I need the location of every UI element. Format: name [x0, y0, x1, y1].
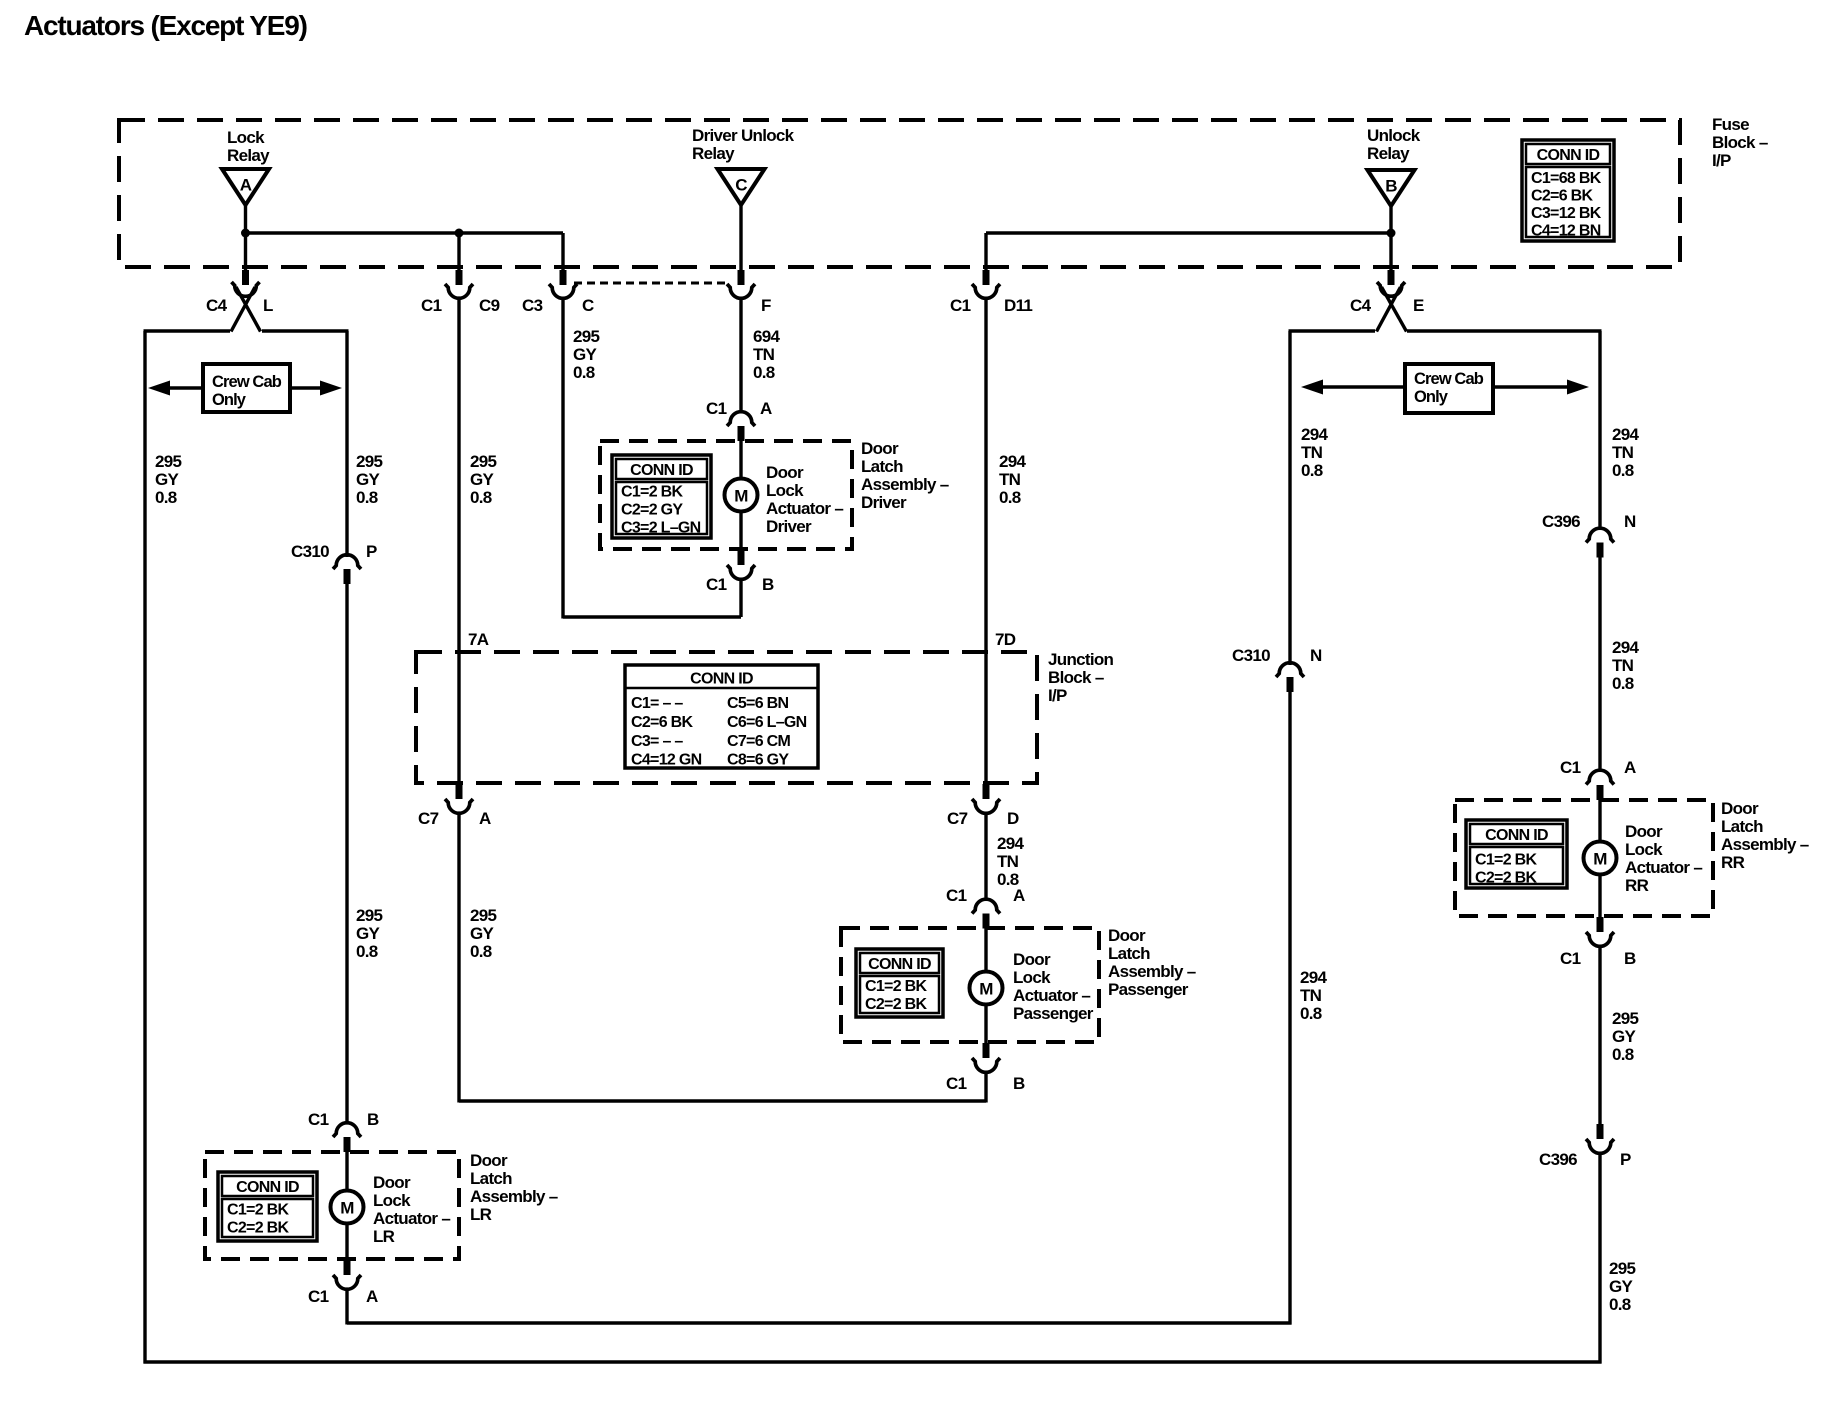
- CONN ID table (driver): [612, 455, 711, 538]
- arrow line left-right: [290, 386, 330, 389]
- wire split E right diagonal: [1382, 287, 1407, 332]
- connector C1 A (LR) terminal: [333, 1275, 361, 1289]
- svg-text:CONN ID: CONN ID: [868, 956, 931, 973]
- connector C4-L pin stub: [242, 270, 249, 285]
- svg-text:294TN0.8: 294TN0.8: [997, 834, 1025, 889]
- relay C (Driver Unlock Relay): [718, 169, 765, 205]
- svg-text:C4: C4: [1350, 296, 1372, 315]
- svg-text:B: B: [1013, 1074, 1025, 1093]
- svg-text:C2=2 BK: C2=2 BK: [227, 1220, 289, 1237]
- connector C1 A (LR) stub: [344, 1260, 351, 1275]
- arrow line right-left: [1313, 385, 1405, 388]
- svg-text:M: M: [340, 1199, 354, 1218]
- svg-text:Actuators (Except YE9): Actuators (Except YE9): [24, 10, 307, 41]
- fuse block I/P dashed box: [119, 120, 1680, 267]
- connector C1 B (passenger) stub: [983, 1043, 990, 1058]
- svg-text:N: N: [1624, 512, 1636, 531]
- Crew Cab Only box (right): [1405, 364, 1493, 413]
- svg-text:N: N: [1310, 646, 1322, 665]
- wire RR motor bottom: [1598, 875, 1601, 917]
- wire 294 TN to RR latch: [1598, 557, 1601, 773]
- connector C310 P stub: [344, 569, 351, 584]
- connector C1 B (RR) stub: [1597, 917, 1604, 932]
- arrowhead right-right: [1567, 380, 1589, 395]
- svg-text:C5=6 BN: C5=6 BN: [727, 695, 788, 712]
- wire 294 TN C310 N down: [1288, 691, 1291, 1325]
- svg-text:C2=2 BK: C2=2 BK: [1475, 870, 1537, 887]
- svg-text:C1: C1: [308, 1287, 329, 1306]
- svg-text:295GY0.8: 295GY0.8: [1612, 1009, 1639, 1064]
- svg-text:A: A: [760, 399, 772, 418]
- svg-text:C: C: [735, 176, 747, 195]
- svg-text:C1: C1: [1560, 949, 1581, 968]
- svg-text:JunctionBlock –I/P: JunctionBlock –I/P: [1048, 650, 1114, 705]
- motor M door lock actuator RR: [1584, 842, 1617, 875]
- connector C396 N: [1586, 528, 1614, 542]
- svg-text:LockRelay: LockRelay: [227, 128, 270, 165]
- connector C310 N stub: [1287, 677, 1294, 692]
- svg-text:C1: C1: [946, 1074, 967, 1093]
- connector C1 A (RR) stub: [1597, 785, 1604, 800]
- wire passenger motor bottom: [984, 1004, 987, 1043]
- wire passenger motor top: [984, 928, 987, 972]
- wire 295 GY RR down: [1598, 945, 1601, 1125]
- connector C1-C9 pin stub: [456, 270, 463, 285]
- connector C396 N stub: [1597, 543, 1604, 558]
- connector C1 A (passenger) terminal: [972, 899, 1000, 913]
- wire relay A stem: [244, 205, 247, 272]
- svg-text:295GY0.8: 295GY0.8: [470, 906, 497, 961]
- svg-text:F: F: [761, 296, 771, 315]
- svg-text:B: B: [1624, 949, 1636, 968]
- connector C1 B (LR) stub: [344, 1137, 351, 1152]
- wire 295 GY C7A down: [457, 812, 460, 1103]
- svg-text:Crew CabOnly: Crew CabOnly: [212, 373, 282, 409]
- svg-text:DoorLockActuator –LR: DoorLockActuator –LR: [373, 1173, 450, 1246]
- connector C1-D11 terminal: [972, 284, 1000, 298]
- svg-text:CONN ID: CONN ID: [1485, 827, 1548, 844]
- svg-text:294TN0.8: 294TN0.8: [999, 452, 1027, 507]
- CONN ID table (fuse block): [1522, 140, 1614, 241]
- wire LR motor top: [345, 1152, 348, 1191]
- wire 295 GY C9 to junction block: [457, 297, 460, 784]
- svg-text:C310: C310: [1232, 646, 1270, 665]
- svg-text:C9: C9: [479, 296, 500, 315]
- connector C4-L terminal: [232, 282, 260, 296]
- wire driver B up: [739, 578, 742, 618]
- svg-text:C1: C1: [421, 296, 442, 315]
- svg-text:C3: C3: [522, 296, 543, 315]
- wire split E left diagonal: [1377, 287, 1401, 332]
- wire drop to C9: [457, 233, 460, 272]
- junction dot A: [241, 229, 250, 238]
- wire LR A to C310 N return: [347, 1321, 1292, 1324]
- connector C3-C terminal: [549, 284, 577, 298]
- svg-text:295GY0.8: 295GY0.8: [155, 452, 182, 507]
- wire split L right diagonal: [236, 287, 261, 332]
- Door Latch Assembly Passenger dashed box: [841, 928, 1099, 1042]
- connector C396 P terminal: [1586, 1139, 1614, 1153]
- svg-text:C396: C396: [1542, 512, 1580, 531]
- svg-text:DoorLockActuator –Driver: DoorLockActuator –Driver: [766, 463, 843, 536]
- connector C1 A (driver) stub: [738, 426, 745, 441]
- connector C1 B (driver) terminal: [727, 565, 755, 579]
- connector C396 P stub: [1597, 1124, 1604, 1139]
- svg-text:295GY0.8: 295GY0.8: [470, 452, 497, 507]
- connector C1-F terminal: [727, 284, 755, 298]
- svg-text:DoorLatchAssembly –Passenger: DoorLatchAssembly –Passenger: [1108, 926, 1196, 999]
- svg-text:A: A: [240, 176, 252, 195]
- arrowhead left-left: [148, 381, 170, 396]
- svg-text:C4=12 GN: C4=12 GN: [631, 752, 702, 769]
- svg-text:A: A: [366, 1287, 378, 1306]
- arrow line left-left: [160, 386, 203, 389]
- wire drop to D11: [984, 233, 987, 272]
- svg-text:C6=6 L–GN: C6=6 L–GN: [727, 714, 807, 731]
- wire drop to C3 C: [561, 233, 564, 272]
- svg-text:P: P: [1620, 1150, 1631, 1169]
- connector C1-D11 pin stub: [983, 270, 990, 285]
- svg-text:E: E: [1413, 296, 1424, 315]
- motor M door lock actuator driver: [725, 479, 758, 512]
- Door Latch Assembly RR dashed box: [1455, 800, 1713, 916]
- wire 295 GY to bottom return: [1598, 1152, 1601, 1364]
- svg-text:CONN ID: CONN ID: [1537, 147, 1600, 164]
- svg-text:C8=6 GY: C8=6 GY: [727, 752, 789, 769]
- svg-text:C7=6 CM: C7=6 CM: [727, 733, 790, 750]
- svg-text:C3=12 BK: C3=12 BK: [1531, 205, 1602, 222]
- svg-text:694TN0.8: 694TN0.8: [753, 327, 781, 382]
- connector C1-F pin stub: [738, 270, 745, 285]
- svg-text:L: L: [263, 296, 273, 315]
- svg-text:C1=2 BK: C1=2 BK: [1475, 852, 1537, 869]
- svg-text:CONN ID: CONN ID: [630, 462, 693, 479]
- svg-text:C2=2 BK: C2=2 BK: [865, 996, 927, 1013]
- svg-text:C2=6 BK: C2=6 BK: [1531, 188, 1593, 205]
- svg-text:C1: C1: [706, 399, 727, 418]
- Door Latch Assembly Driver dashed box: [600, 441, 852, 549]
- svg-text:C: C: [582, 296, 594, 315]
- svg-text:DoorLatchAssembly –Driver: DoorLatchAssembly –Driver: [861, 439, 949, 512]
- wire RR motor top: [1598, 800, 1601, 842]
- svg-text:294TN0.8: 294TN0.8: [1301, 425, 1329, 480]
- relay B (Unlock Relay): [1368, 170, 1415, 206]
- svg-text:C1: C1: [950, 296, 971, 315]
- wire bottom return: [144, 1360, 1602, 1363]
- wire split L right horizontal: [262, 329, 349, 332]
- svg-text:B: B: [1385, 177, 1397, 196]
- wire lock bus A: [246, 231, 564, 234]
- svg-text:294TN0.8: 294TN0.8: [1300, 968, 1328, 1023]
- svg-text:B: B: [762, 575, 774, 594]
- svg-text:D: D: [1007, 809, 1019, 828]
- svg-text:C3= – –: C3= – –: [631, 733, 683, 750]
- svg-text:C396: C396: [1539, 1150, 1577, 1169]
- wire driver motor bottom: [739, 511, 742, 550]
- svg-text:CONN ID: CONN ID: [690, 671, 753, 688]
- svg-text:UnlockRelay: UnlockRelay: [1367, 126, 1421, 163]
- svg-text:C2=6 BK: C2=6 BK: [631, 714, 693, 731]
- svg-text:C2=2 GY: C2=2 GY: [621, 502, 683, 519]
- svg-text:294TN0.8: 294TN0.8: [1612, 425, 1640, 480]
- CONN ID table (RR): [1466, 820, 1567, 888]
- connector C7 D stub: [983, 784, 990, 799]
- connector C1 A (driver) terminal: [727, 412, 755, 426]
- svg-text:C4=12 BN: C4=12 BN: [1531, 223, 1601, 240]
- svg-text:7D: 7D: [995, 630, 1016, 649]
- wire driver motor top: [739, 441, 742, 480]
- svg-text:295GY0.8: 295GY0.8: [1609, 1259, 1636, 1314]
- svg-text:C1=2 BK: C1=2 BK: [621, 484, 683, 501]
- connector C1 B (LR) terminal: [333, 1123, 361, 1137]
- wire passenger return horizontal: [459, 1099, 986, 1102]
- svg-text:295GY0.8: 295GY0.8: [356, 452, 383, 507]
- connector C1-C9 terminal: [445, 284, 473, 298]
- connector C4-E terminal: [1377, 282, 1405, 296]
- wire relay B stem: [1389, 207, 1392, 272]
- wire 295 GY to C310 P: [345, 331, 348, 557]
- svg-text:A: A: [1624, 758, 1636, 777]
- arrowhead left-right: [320, 381, 342, 396]
- wire 294 TN crew cab left: [1288, 331, 1291, 665]
- connector C7 A stub: [456, 784, 463, 799]
- wire passenger B down: [984, 1071, 987, 1103]
- svg-text:CONN ID: CONN ID: [236, 1179, 299, 1196]
- svg-text:C1= – –: C1= – –: [631, 695, 683, 712]
- svg-text:M: M: [734, 487, 748, 506]
- svg-text:C1: C1: [706, 575, 727, 594]
- svg-text:DoorLockActuator –Passenger: DoorLockActuator –Passenger: [1013, 950, 1094, 1023]
- connector C1 B (driver) stub: [738, 550, 745, 565]
- wire 295 GY to LR door latch: [345, 584, 348, 1125]
- svg-text:M: M: [1593, 850, 1607, 869]
- Door Latch Assembly LR dashed box: [205, 1152, 459, 1259]
- svg-text:C7: C7: [418, 809, 439, 828]
- Crew Cab Only box (left): [203, 364, 290, 412]
- connector C7 A terminal: [445, 799, 473, 813]
- wire driver B return horizontal: [563, 615, 741, 618]
- connector C1 B (RR) terminal: [1586, 932, 1614, 946]
- wire left outer vertical: [143, 331, 146, 1364]
- wire split E left horizontal: [1289, 329, 1376, 332]
- svg-text:C310: C310: [291, 542, 329, 561]
- connector C3-C pin stub: [560, 270, 567, 285]
- motor M door lock actuator passenger: [970, 972, 1003, 1005]
- motor M door lock actuator LR: [331, 1191, 364, 1224]
- svg-text:D11: D11: [1004, 296, 1032, 315]
- junction dot C9: [455, 229, 464, 238]
- svg-text:DoorLatchAssembly –RR: DoorLatchAssembly –RR: [1721, 799, 1809, 872]
- svg-text:295GY0.8: 295GY0.8: [573, 327, 600, 382]
- connector C7 D terminal: [972, 799, 1000, 813]
- wire 294 TN D11 to junction block: [984, 297, 987, 784]
- svg-text:DoorLatchAssembly –LR: DoorLatchAssembly –LR: [470, 1151, 558, 1224]
- svg-text:P: P: [366, 542, 377, 561]
- wire 694 TN to driver latch: [739, 297, 742, 413]
- relay A (Lock Relay): [222, 169, 269, 205]
- junction dot B: [1387, 229, 1396, 238]
- svg-text:C7: C7: [947, 809, 968, 828]
- CONN ID table (junction block): [625, 665, 818, 769]
- svg-text:C1: C1: [946, 886, 967, 905]
- connector C1 A (RR) terminal: [1586, 770, 1614, 784]
- svg-text:C4: C4: [206, 296, 228, 315]
- wire LR motor bottom: [345, 1224, 348, 1260]
- svg-text:C1=2 BK: C1=2 BK: [227, 1202, 289, 1219]
- wire 295 GY C3C down: [561, 297, 564, 619]
- svg-text:B: B: [367, 1110, 379, 1129]
- CONN ID table (passenger): [856, 949, 943, 1017]
- arrowhead right-left: [1301, 380, 1323, 395]
- svg-text:C1=68 BK: C1=68 BK: [1531, 170, 1602, 187]
- wire split L left diagonal: [231, 287, 255, 332]
- svg-text:C1: C1: [308, 1110, 329, 1129]
- connector C1 A (passenger) stub: [983, 914, 990, 929]
- svg-text:DoorLockActuator –RR: DoorLockActuator –RR: [1625, 822, 1702, 895]
- svg-text:Driver UnlockRelay: Driver UnlockRelay: [692, 126, 795, 163]
- wire 294 TN C7D down: [984, 812, 987, 901]
- wire 294 TN crew cab right: [1598, 331, 1601, 530]
- svg-text:294TN0.8: 294TN0.8: [1612, 638, 1640, 693]
- svg-text:A: A: [479, 809, 491, 828]
- junction block I/P dashed box: [416, 652, 1037, 783]
- connector C1 B (passenger) terminal: [972, 1058, 1000, 1072]
- svg-text:FuseBlock –I/P: FuseBlock –I/P: [1712, 115, 1768, 170]
- svg-text:7A: 7A: [468, 630, 489, 649]
- wire split E right horizontal: [1407, 329, 1602, 332]
- svg-text:C3=2 L–GN: C3=2 L–GN: [621, 520, 701, 537]
- svg-text:Crew CabOnly: Crew CabOnly: [1414, 370, 1484, 406]
- svg-text:A: A: [1013, 886, 1025, 905]
- connector C310 N: [1276, 663, 1304, 677]
- connector C310 P: [333, 555, 361, 569]
- svg-text:C1=2 BK: C1=2 BK: [865, 978, 927, 995]
- svg-text:C1: C1: [1560, 758, 1581, 777]
- wire split L left horizontal: [144, 329, 231, 332]
- wire unlock bus B: [986, 231, 1391, 234]
- CONN ID table (LR): [218, 1172, 317, 1241]
- arrow line right-right: [1493, 385, 1577, 388]
- wire LR A down: [345, 1288, 348, 1325]
- svg-text:M: M: [979, 980, 993, 999]
- connector face dashed line C to F: [574, 282, 726, 285]
- connector C4-E pin stub: [1388, 270, 1395, 285]
- wire relay C stem: [739, 206, 742, 272]
- svg-text:295GY0.8: 295GY0.8: [356, 906, 383, 961]
